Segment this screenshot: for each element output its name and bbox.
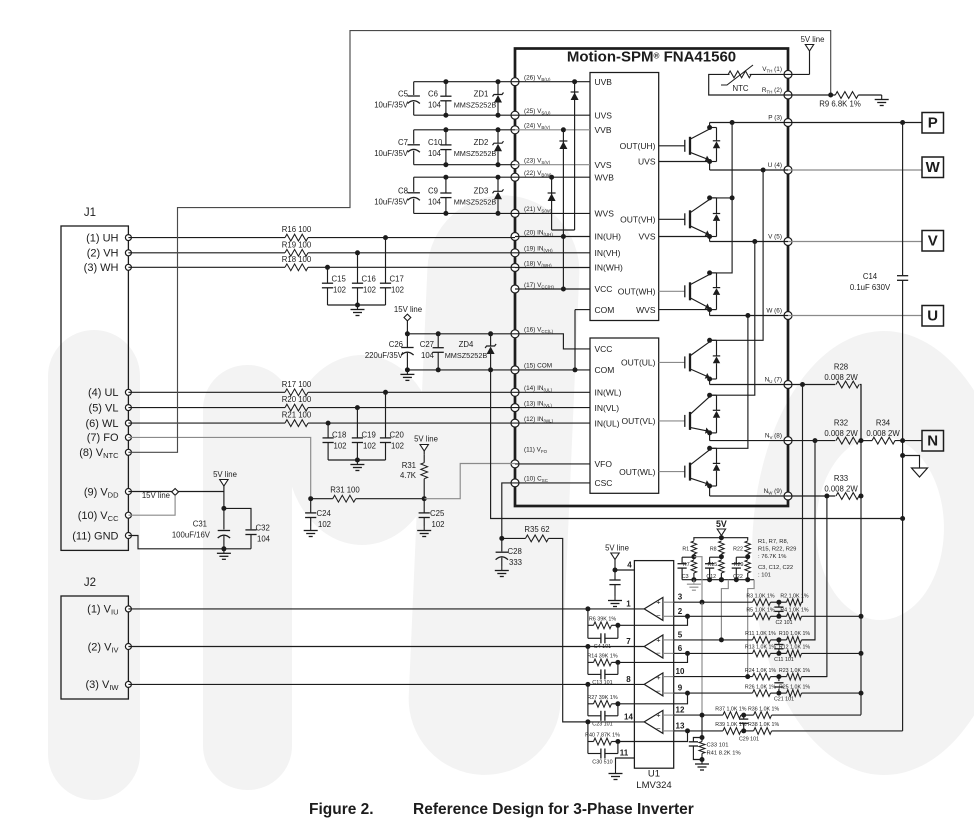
svg-text:4: 4	[627, 561, 632, 570]
svg-text:J2: J2	[84, 577, 96, 589]
node tap4	[700, 713, 705, 718]
svg-text:100uF/16V: 100uF/16V	[172, 531, 211, 540]
svg-text:C31: C31	[193, 520, 207, 529]
node opamp4 inv junction	[685, 728, 690, 733]
wire feedback R4 right lead	[612, 741, 618, 743]
resistor R4	[787, 613, 802, 620]
capacitor C11	[778, 640, 780, 645]
wire FO to R31	[311, 498, 333, 500]
svg-text:IN(VH): IN(VH)	[595, 248, 621, 258]
svg-text:R29: R29	[734, 562, 744, 568]
wire C31-C32 top rail	[224, 508, 251, 529]
watermark blob upper arc	[286, 355, 438, 545]
svg-text:R31 100: R31 100	[330, 485, 360, 494]
svg-text:104: 104	[257, 535, 271, 544]
svg-text:R22: R22	[733, 547, 743, 553]
wire opamp4 inv down	[618, 731, 688, 742]
J1 pin 7	[125, 434, 131, 440]
svg-text:IN(WL): IN(WL)	[595, 388, 622, 398]
SPM pin (16)	[511, 330, 519, 338]
wire N column down	[902, 441, 904, 731]
SPM pin (5)	[784, 238, 792, 246]
wire feedback4 right side	[617, 742, 619, 754]
node U sense	[761, 168, 766, 173]
terminal box W	[922, 157, 944, 178]
wire J1 row R16	[128, 237, 285, 239]
terminal box N	[922, 431, 944, 452]
ground below C24	[310, 526, 312, 531]
svg-text:R1, R7, R8,: R1, R7, R8,	[758, 539, 789, 545]
svg-text:C11 101: C11 101	[774, 657, 794, 663]
wire U sense to UL collector	[710, 170, 764, 340]
svg-text:R23 1.0K 1%: R23 1.0K 1%	[779, 668, 811, 674]
capacitor C30	[588, 753, 601, 755]
SPM pin (19)	[511, 249, 519, 257]
svg-text:IN(UH): IN(UH)	[595, 232, 622, 242]
svg-text:(1) UH: (1) UH	[86, 232, 118, 244]
zener diode ZD4	[490, 334, 492, 346]
resistor R28 0.008	[836, 381, 859, 388]
power ground symbol	[919, 464, 921, 468]
svg-text:ZD3: ZD3	[474, 186, 489, 195]
wire +net3 c	[802, 676, 827, 678]
svg-text:(2) VH: (2) VH	[87, 248, 119, 260]
svg-text:R17 100: R17 100	[282, 380, 312, 389]
capacitor C5	[408, 95, 420, 97]
svg-text:C15: C15	[332, 275, 347, 284]
wire feedback R4 leads	[588, 741, 594, 743]
wire R18 to module	[308, 266, 515, 268]
wire ch4 -net a	[688, 730, 723, 732]
wire V rail	[710, 241, 788, 243]
svg-text:R3 1.0K 1%: R3 1.0K 1%	[746, 593, 775, 599]
node V sense	[752, 239, 757, 244]
svg-text:IN(WH): IN(WH)	[595, 263, 623, 273]
resistor R10	[787, 637, 802, 644]
svg-text:MMSZ5252B: MMSZ5252B	[445, 351, 488, 360]
svg-text:VVS: VVS	[595, 160, 612, 170]
wire pin(11) VFO stub	[515, 463, 590, 465]
svg-text:C24: C24	[317, 509, 332, 518]
watermark blob middle bar	[405, 192, 582, 778]
svg-text:W: W	[926, 159, 941, 176]
svg-text:R12 1.0K 1%: R12 1.0K 1%	[779, 645, 811, 651]
wire R8 junction	[720, 554, 722, 560]
svg-text:5: 5	[678, 630, 683, 639]
wire R20 to module	[308, 407, 515, 409]
SPM pin (14)	[511, 388, 519, 396]
svg-text:−: −	[656, 724, 661, 733]
SPM pin (11)	[511, 460, 519, 468]
node R8 junction	[719, 554, 724, 559]
svg-text:OUT(WH): OUT(WH)	[618, 287, 656, 297]
wire R29 bottom	[747, 573, 749, 580]
J1 pin 3	[125, 264, 131, 270]
zener diode ZD1	[497, 82, 499, 95]
capacitor C28	[501, 538, 503, 551]
svg-text:P (3): P (3)	[768, 114, 782, 121]
svg-text:IN(UL): IN(UL)	[595, 418, 620, 428]
ground below bias	[693, 580, 695, 585]
node opamp2 inv junction	[685, 651, 690, 656]
svg-text:11: 11	[620, 749, 629, 758]
svg-text:R31: R31	[402, 461, 416, 470]
svg-text:+: +	[656, 598, 661, 607]
wire 15V rail top	[407, 333, 515, 335]
svg-text:C23 101: C23 101	[592, 722, 612, 728]
svg-text:C7: C7	[398, 138, 408, 147]
node feedback4 corner	[615, 739, 620, 744]
wire W sense to WL collector	[710, 316, 748, 449]
bootstrap diode column C wire	[551, 177, 553, 230]
svg-text:R36 1.0K 1%: R36 1.0K 1%	[748, 706, 780, 712]
wire feedback R1 right lead	[612, 624, 618, 626]
resistor R1	[691, 541, 697, 554]
op-amp U1D	[644, 710, 663, 733]
wire J1 row R21	[128, 422, 285, 424]
svg-text:220uF/35V: 220uF/35V	[365, 351, 404, 360]
resistor R23	[787, 673, 802, 680]
wire J1 row R17	[128, 391, 285, 393]
resistor R40	[594, 738, 612, 745]
wire NW sense line	[802, 496, 827, 677]
node ch4 +net	[741, 713, 746, 718]
wire U rail	[710, 169, 788, 171]
wire NU to R28	[788, 384, 835, 386]
SPM pin (8)	[784, 437, 792, 445]
svg-text:C18: C18	[332, 431, 346, 440]
SPM pin (6)	[784, 312, 792, 320]
capacitor C16	[357, 253, 359, 283]
IGBT UL	[659, 361, 685, 363]
svg-text:R5 1.0K 1%: R5 1.0K 1%	[746, 608, 775, 614]
resistor R36	[754, 712, 772, 719]
resistor R21 100	[285, 420, 308, 427]
J2 pin 2	[125, 644, 131, 650]
wire R41 bottom	[693, 754, 702, 760]
SPM pin (7)	[784, 381, 792, 389]
svg-text:10uF/35V: 10uF/35V	[374, 101, 409, 110]
wire 15V rail bottom	[407, 369, 515, 371]
svg-text:COM: COM	[595, 305, 615, 315]
wire V to box V	[788, 241, 922, 243]
node FO junction	[308, 496, 313, 501]
svg-text:IN(VL): IN(VL)	[595, 403, 620, 413]
capacitor C17	[385, 238, 387, 284]
node R1 junction	[691, 554, 696, 559]
svg-text:8: 8	[626, 675, 631, 684]
wire opamp4 -input stub	[663, 730, 674, 732]
capacitor C3	[682, 556, 694, 558]
node P feed	[730, 120, 735, 125]
svg-text:NW (9): NW (9)	[764, 488, 782, 496]
svg-text:U: U	[927, 308, 938, 325]
svg-text:(7) FO: (7) FO	[87, 432, 119, 444]
wire NW to R33	[788, 495, 835, 497]
node C15 junction	[325, 265, 330, 270]
svg-text:R9 6.8K 1%: R9 6.8K 1%	[819, 100, 861, 109]
capacitor C10	[445, 130, 447, 145]
svg-text:R15, R22, R29: R15, R22, R29	[758, 547, 796, 553]
wire VDD row	[128, 492, 224, 509]
capacitor C12	[710, 556, 722, 558]
wire pin(18) to driver	[515, 267, 590, 269]
wire R34 to N box	[895, 440, 922, 442]
wire ch4 +net c	[772, 714, 861, 716]
node -net2	[776, 651, 781, 656]
svg-text:4.7K: 4.7K	[400, 471, 417, 480]
node +net2	[776, 637, 781, 642]
resistor R41	[699, 742, 705, 754]
svg-text:(6) WL: (6) WL	[86, 418, 119, 430]
svg-text:C33 101: C33 101	[707, 743, 729, 749]
wire NTC loop to RTH	[709, 74, 788, 95]
svg-text:OUT(UH): OUT(UH)	[620, 141, 656, 151]
svg-text:0.008 2W: 0.008 2W	[824, 429, 858, 438]
wire VTH to 5V line	[788, 73, 810, 75]
svg-text:C8: C8	[398, 186, 408, 195]
watermark blob left capsule	[48, 330, 140, 800]
wire bootstrap group 3 rails	[414, 176, 515, 178]
wire pin(26) to driver	[515, 81, 590, 83]
node tap2	[719, 637, 724, 642]
node R31 pullup junction	[422, 496, 427, 501]
wire pin(25) to driver	[515, 114, 590, 116]
wire opamp3 -input stub	[663, 692, 674, 694]
svg-text:102: 102	[363, 286, 376, 295]
wire NU sense line	[802, 385, 803, 603]
svg-text:102: 102	[391, 442, 404, 451]
svg-text:R18 100: R18 100	[282, 255, 312, 264]
svg-text:: 101: : 101	[758, 573, 771, 579]
svg-text:CSC: CSC	[595, 478, 613, 488]
node R41 bottom	[700, 757, 705, 762]
wire UH collector to P	[709, 123, 711, 128]
wire pin11	[616, 758, 635, 769]
svg-text:R7: R7	[683, 562, 690, 568]
resistor R15	[719, 560, 725, 573]
capacitor C15	[327, 267, 329, 283]
wire R15 bottom	[720, 573, 722, 580]
svg-text:U (4): U (4)	[768, 162, 782, 169]
capacitor C21	[778, 677, 780, 682]
node feedback3 corner	[615, 701, 620, 706]
resistor R8	[719, 541, 725, 554]
wire P feed to WH	[710, 198, 733, 273]
svg-text:C2 101: C2 101	[775, 620, 792, 626]
svg-text:N: N	[927, 433, 938, 450]
svg-text:102: 102	[391, 286, 404, 295]
wire pin(22) to driver	[515, 176, 590, 178]
svg-text:(4) UL: (4) UL	[88, 387, 119, 399]
svg-text:VTH (1): VTH (1)	[762, 66, 782, 74]
wire opamp4 output row	[563, 721, 645, 723]
J2 pin 1	[125, 606, 131, 612]
svg-text:3: 3	[678, 593, 683, 602]
svg-text:OUT(WL): OUT(WL)	[619, 467, 656, 477]
svg-text:104: 104	[421, 351, 435, 360]
svg-text:−: −	[656, 687, 661, 696]
node R15 bottom	[719, 577, 724, 582]
node shunt col R12	[859, 651, 864, 656]
J1 pin 1	[125, 235, 131, 241]
wire R21 to module	[308, 422, 515, 424]
wire -net2 c	[802, 652, 862, 654]
wire J2 VIU to opamp1	[128, 608, 644, 610]
wire R33 up to junction	[860, 495, 861, 497]
svg-text:VCC: VCC	[595, 284, 613, 294]
node CSC junction	[499, 536, 504, 541]
svg-text:1: 1	[626, 599, 631, 608]
wire opamp2 -input stub	[663, 652, 674, 654]
resistor R25	[787, 690, 802, 697]
node C31 top junction	[221, 506, 226, 511]
svg-text:Figure 2.: Figure 2.	[309, 801, 374, 818]
wire COM rail	[491, 370, 903, 519]
wire opamp1 +input stub	[663, 601, 674, 603]
module FNA41560 outline	[515, 49, 788, 507]
svg-text:Motion-SPM® FNA41560: Motion-SPM® FNA41560	[567, 49, 736, 66]
svg-text:R35 62: R35 62	[524, 525, 549, 534]
svg-text:R15: R15	[707, 562, 717, 568]
svg-text:R26 1.0K 1%: R26 1.0K 1%	[745, 684, 777, 690]
resistor R32 0.008	[836, 437, 859, 444]
svg-text:104: 104	[428, 197, 442, 206]
ground below R41	[701, 760, 703, 765]
svg-text:10: 10	[676, 667, 685, 676]
wire pin(21) to driver	[515, 212, 590, 214]
wire opamp2 inv down	[618, 653, 688, 662]
wire C15-C17 ground rail	[328, 304, 386, 306]
svg-text:R21 100: R21 100	[282, 411, 312, 420]
capacitor C4	[588, 637, 601, 639]
node feedback2 corner	[615, 660, 620, 665]
svg-text:NU (7): NU (7)	[765, 376, 782, 384]
node feedback1 corner	[615, 623, 620, 628]
wire WVS stub	[659, 309, 710, 311]
node opamp3 output	[585, 682, 590, 687]
wire opamp4 +input stub	[663, 714, 674, 716]
wire opamp2 inv jog	[674, 652, 688, 654]
resistor R17 100	[285, 389, 308, 396]
wire -net2 a	[688, 652, 753, 654]
wire P to box	[788, 122, 922, 124]
wire +net1 c	[802, 601, 803, 603]
svg-text:R38 1.0K 1%: R38 1.0K 1%	[748, 722, 780, 728]
node opamp3 inv junction	[685, 691, 690, 696]
wire +net2 c	[802, 639, 816, 641]
node R7 bottom	[691, 577, 696, 582]
svg-text:V (5): V (5)	[768, 233, 782, 240]
wire NU rail	[710, 384, 788, 386]
wire -net1 b	[771, 615, 787, 617]
resistor R31 4.7K	[423, 455, 425, 463]
svg-text:C19: C19	[362, 431, 376, 440]
SPM pin (24)	[511, 126, 519, 134]
wire pin(19) to driver	[515, 252, 590, 254]
node opamp1 inv junction	[685, 614, 690, 619]
resistor R31 100	[333, 495, 356, 502]
svg-text:R1: R1	[682, 547, 689, 553]
capacitor C26	[406, 334, 408, 347]
wire UVS stub	[659, 161, 710, 163]
wire opamp2 +input stub	[663, 639, 674, 641]
node shunt col R4	[859, 614, 864, 619]
wire opamp2 feedback left	[587, 647, 589, 675]
wire feedback R3 leads	[588, 703, 594, 705]
wire -net2 b	[771, 652, 787, 654]
wire ch4 +net a	[674, 714, 723, 716]
node C16 junction	[355, 250, 360, 255]
IGBT VL	[659, 420, 685, 422]
wire NW rail	[710, 495, 788, 497]
resistor R39	[723, 728, 741, 735]
resistor R11	[753, 637, 771, 644]
ground below C28	[501, 566, 503, 571]
wire RTH to R9	[788, 94, 835, 96]
bootstrap diode column A wire	[574, 82, 576, 230]
svg-text:NTC: NTC	[732, 84, 748, 93]
wire opamp1 feedback left	[587, 609, 589, 638]
wire W to box U	[788, 315, 922, 317]
node N ground tap	[900, 453, 905, 458]
wire bias 5V rail	[694, 538, 748, 541]
svg-text:C29 101: C29 101	[739, 736, 759, 742]
wire +net2 b	[771, 639, 787, 641]
capacitor C20	[385, 392, 387, 438]
svg-text:R2 1.0K 1%: R2 1.0K 1%	[780, 593, 809, 599]
svg-text:C27: C27	[420, 340, 434, 349]
wire R7 bottom	[693, 573, 695, 580]
svg-text:5V line: 5V line	[213, 470, 237, 479]
svg-text:ZD2: ZD2	[474, 138, 489, 147]
wire VVS stub	[659, 236, 710, 238]
wire bias bottom rail	[682, 579, 754, 581]
svg-text:VVB: VVB	[595, 125, 612, 135]
resistor R18 100	[285, 264, 308, 271]
wire U to box W	[788, 169, 922, 171]
watermark blob second capsule	[203, 365, 292, 790]
svg-text:(3) WH: (3) WH	[84, 262, 119, 274]
SPM pin (1)	[784, 70, 792, 78]
svg-text:C20: C20	[390, 431, 405, 440]
ground below U1 bypass	[614, 596, 616, 601]
wire pin(16) to LVIC VCC	[515, 334, 590, 349]
SPM pin (26)	[511, 78, 519, 86]
SPM pin (20)	[511, 233, 519, 241]
svg-text:10uF/35V: 10uF/35V	[374, 149, 409, 158]
op-amp U1 box	[634, 561, 673, 769]
node W sense	[745, 313, 750, 318]
op-amp U1B	[644, 635, 663, 658]
node ch4 -net	[741, 728, 746, 733]
svg-text:P: P	[928, 115, 938, 132]
terminal box P	[922, 113, 944, 134]
svg-text:VFO: VFO	[595, 459, 613, 469]
J1 pin 5	[125, 405, 131, 411]
svg-text:5V: 5V	[716, 519, 727, 529]
wire vref to R41	[701, 715, 703, 737]
wire +net3 a	[674, 676, 753, 678]
svg-text:WVS: WVS	[595, 209, 615, 219]
svg-text:WVS: WVS	[636, 305, 656, 315]
svg-text:OUT(UL): OUT(UL)	[621, 358, 656, 368]
SPM pin (25)	[511, 111, 519, 119]
wire pin(14) to LVIC	[515, 391, 590, 393]
svg-text:+: +	[656, 673, 661, 682]
svg-text:C14: C14	[863, 272, 878, 281]
svg-text:R8: R8	[710, 547, 717, 553]
